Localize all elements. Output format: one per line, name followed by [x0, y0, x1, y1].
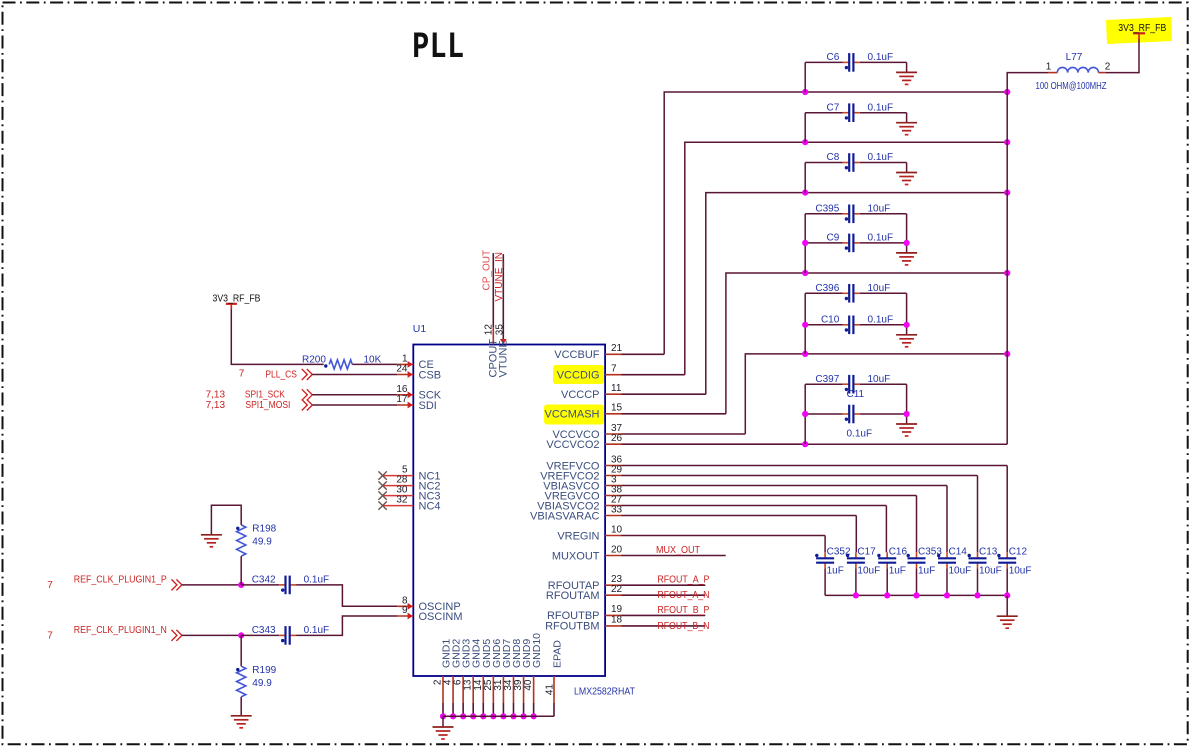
svg-text:0.1uF: 0.1uF [868, 152, 894, 163]
wire VBIASVCO drop to cap [946, 486, 948, 553]
svg-text:REF_CLK_PLUGIN1_P: REF_CLK_PLUGIN1_P [74, 575, 167, 586]
wire VCCDIG riser to bus [685, 142, 1007, 375]
node junction C353 [913, 592, 919, 598]
svg-text:10: 10 [611, 524, 623, 535]
svg-text:1: 1 [1046, 62, 1052, 73]
svg-text:12: 12 [483, 324, 494, 336]
svg-text:10uF: 10uF [868, 283, 891, 294]
ground GND bus [433, 727, 454, 739]
pin 1 CE [397, 363, 413, 365]
pin 34 GND8 [512, 676, 514, 703]
svg-text:OSCINM: OSCINM [419, 611, 463, 623]
svg-text:18: 18 [611, 615, 623, 626]
svg-text:32: 32 [396, 495, 408, 506]
highlight 3V3_RF_FB top right [1106, 17, 1172, 44]
svg-text:2: 2 [1105, 62, 1111, 73]
resistor R198 49.9 [240, 556, 242, 585]
svg-text:24: 24 [396, 364, 408, 375]
svg-text:PLL: PLL [412, 25, 464, 68]
pin 6 GND3 [462, 676, 464, 703]
svg-text:33: 33 [611, 504, 623, 515]
ground C9 [896, 253, 917, 265]
capacitor C17 10uF [855, 552, 857, 557]
capacitor C16 1uF [886, 552, 888, 557]
svg-text:100 OHM@100MHZ: 100 OHM@100MHZ [1036, 81, 1107, 92]
svg-text:CSB: CSB [419, 369, 442, 381]
pin 12 CPOUT [492, 327, 494, 345]
svg-text:C396: C396 [815, 283, 839, 294]
ground R198 [201, 535, 222, 547]
svg-text:VREGIN: VREGIN [557, 530, 599, 542]
wire C397 C11 right join [906, 384, 908, 424]
pin 4 GND2 [452, 676, 454, 703]
highlight VCCMASH [544, 405, 604, 425]
pin 9 OSCINM [397, 615, 413, 617]
svg-text:C16: C16 [889, 547, 908, 558]
wire C395 C9 right join [906, 214, 908, 253]
pin 25 GND6 [492, 676, 494, 703]
capacitor C12 10uF [1006, 552, 1008, 557]
pin 30 NC3 no-connect [383, 495, 414, 497]
svg-text:VBIASVARAC: VBIASVARAC [530, 510, 600, 522]
svg-text:C6: C6 [827, 52, 840, 63]
pin 14 GND5 [482, 676, 484, 703]
svg-text:VCCDIG: VCCDIG [557, 370, 600, 382]
pin 39 GND9 [523, 676, 525, 703]
svg-text:1uF: 1uF [918, 566, 935, 577]
capacitor C8 0.1uF [805, 162, 843, 164]
svg-text:17: 17 [396, 394, 408, 405]
capacitor C9 0.1uF [805, 242, 843, 244]
svg-text:VTUNE: VTUNE [498, 340, 510, 377]
pin 7 VCCDIG [605, 374, 621, 376]
pin 35 VTUNE [502, 254, 504, 344]
wire VREFVCO2 drop to cap [977, 476, 979, 553]
svg-text:RFOUT_A_N: RFOUT_A_N [657, 590, 709, 601]
capacitor C10 0.1uF [805, 324, 843, 326]
capacitor C7 0.1uF [805, 112, 843, 114]
wire C8 left drop to bus [804, 163, 806, 193]
pin 17 SDI [397, 404, 413, 406]
pin 18 RFOUTBM [605, 625, 621, 627]
wire C343 to OSCINM [296, 616, 397, 635]
capacitor C11 0.1uF [805, 413, 843, 415]
svg-text:7: 7 [239, 368, 245, 379]
power symbol 3V3_RF_FB left [226, 303, 237, 305]
capacitor C396 10uF [805, 292, 843, 294]
wire C395 C9 left join [804, 214, 806, 273]
pin 15 VCCMASH [605, 413, 621, 415]
wire VREGIN drop to cap [824, 536, 826, 553]
wire SPI1_SCK to SCK [312, 394, 397, 396]
wire REF_CLK_PLUGIN1_N [182, 634, 241, 636]
wire VCCBUF riser to bus [664, 92, 1007, 354]
svg-text:C395: C395 [815, 203, 839, 214]
ground C6 [896, 72, 917, 84]
wire R200 to CE [352, 363, 397, 365]
svg-text:REF_CLK_PLUGIN1_N: REF_CLK_PLUGIN1_N [74, 625, 167, 636]
svg-text:C13: C13 [979, 547, 998, 558]
wire VBIASVARAC drop to cap [855, 516, 857, 553]
resistor R199 49.9 [240, 635, 242, 666]
wire C8 right to ground [906, 163, 908, 173]
svg-text:10uF: 10uF [857, 566, 880, 577]
svg-text:RFOUT_B_P: RFOUT_B_P [657, 605, 709, 616]
svg-text:SDI: SDI [419, 400, 437, 412]
svg-text:RFOUT_B_N: RFOUT_B_N [657, 621, 709, 632]
svg-text:40: 40 [523, 679, 534, 691]
svg-text:C10: C10 [821, 314, 840, 325]
svg-text:R199: R199 [252, 665, 276, 676]
svg-text:15: 15 [611, 403, 623, 414]
ground 7-cap bus [997, 616, 1018, 628]
node junction C14 [944, 592, 950, 598]
svg-text:0.1uF: 0.1uF [868, 52, 894, 63]
pin 19 RFOUTBP [605, 614, 621, 616]
wire C397 C11 left join [804, 384, 806, 444]
capacitor C395 10uF [805, 213, 843, 215]
pin 24 CSB [397, 374, 413, 376]
ground R199 [231, 716, 252, 728]
capacitor C353 1uF [916, 552, 918, 557]
wire C396 C10 left join [804, 293, 806, 354]
svg-text:0.1uF: 0.1uF [304, 575, 330, 586]
wire GND bus [443, 715, 554, 717]
wire VBIASVCO2 drop to cap [885, 506, 887, 553]
pin 3 VBIASVCO [605, 485, 621, 487]
svg-text:VCCVCO2: VCCVCO2 [546, 439, 599, 451]
node junction C17 [853, 592, 859, 598]
wire VREGVCO drop to cap [916, 496, 918, 553]
pin 38 VREGVCO [605, 495, 621, 497]
svg-text:3V3_RF_FB: 3V3_RF_FB [1118, 23, 1166, 34]
svg-text:7,13: 7,13 [206, 400, 226, 411]
wire VREFVCO drop to cap [1006, 466, 1008, 553]
svg-text:VCCMASH: VCCMASH [544, 409, 599, 421]
svg-text:C9: C9 [827, 233, 840, 244]
svg-text:RFOUTAM: RFOUTAM [546, 590, 600, 602]
wire REF_CLK_PLUGIN1_P [182, 584, 241, 586]
wire C7 right to ground [906, 113, 908, 123]
ground C10 [896, 335, 917, 347]
capacitor C14 10uF [946, 552, 948, 557]
wire C342 to OSCINP [296, 585, 397, 606]
node junction C13 [974, 592, 980, 598]
svg-text:10uF: 10uF [868, 203, 891, 214]
svg-text:R198: R198 [252, 524, 276, 535]
wire PLL_CS to CSB [312, 374, 397, 376]
pin 27 VBIASVCO2 [605, 505, 621, 507]
svg-text:C342: C342 [252, 575, 276, 586]
wire VCCVCO2 bus to rail [805, 443, 1007, 445]
svg-text:C14: C14 [949, 547, 968, 558]
pin 2 GND1 [442, 676, 444, 703]
inductor L77 [1048, 72, 1057, 74]
wire 3V3_RF_FB to R200 [231, 309, 323, 364]
svg-text:10uF: 10uF [1009, 566, 1032, 577]
pin 10 VREGIN [605, 535, 621, 537]
pin 20 MUXOUT [605, 555, 621, 557]
node junction C16 [884, 592, 890, 598]
svg-text:VTUNE_IN: VTUNE_IN [494, 252, 505, 301]
svg-text:9: 9 [402, 605, 408, 616]
svg-text:10uF: 10uF [979, 566, 1002, 577]
resistor R200 10K [329, 360, 352, 369]
wire VCCVCO riser to bus [745, 354, 1007, 434]
ground C11 [896, 424, 917, 436]
svg-text:0.1uF: 0.1uF [868, 314, 894, 325]
svg-text:3V3_RF_FB: 3V3_RF_FB [213, 294, 261, 305]
wire VCCCP riser to bus [706, 193, 1007, 395]
svg-text:L77: L77 [1066, 52, 1083, 63]
power symbol 3V3_RF_FB right [1133, 32, 1145, 34]
svg-text:LMX2582RHAT: LMX2582RHAT [574, 687, 635, 698]
pin 32 NC4 no-connect [383, 505, 414, 507]
pin 16 SCK [397, 394, 413, 396]
wire VCCMASH riser to bus [726, 273, 1007, 414]
svg-text:RFOUTBM: RFOUTBM [545, 621, 599, 633]
capacitor C397 10uF [805, 383, 843, 385]
wire supply rail [1007, 73, 1048, 445]
svg-text:C397: C397 [815, 374, 839, 385]
svg-text:10uF: 10uF [868, 374, 891, 385]
svg-text:10uF: 10uF [949, 566, 972, 577]
svg-text:C17: C17 [857, 547, 876, 558]
pin 5 NC1 no-connect [383, 475, 414, 477]
wire GND1 to ground [442, 716, 444, 727]
capacitor C352 1uF [824, 552, 826, 557]
wire R199 to ground [240, 697, 242, 716]
pin 28 NC2 no-connect [383, 485, 414, 487]
ground C7 [896, 123, 917, 135]
svg-text:EPAD: EPAD [552, 640, 564, 668]
svg-text:0.1uF: 0.1uF [847, 429, 873, 440]
wire C6 left drop to bus [804, 62, 806, 92]
capacitor C343 0.1uF [241, 634, 279, 636]
capacitor C342 0.1uF [241, 584, 279, 586]
pin 26 VCCVCO2 [605, 443, 621, 445]
wire C6 right to ground [906, 62, 908, 72]
svg-text:VCCBUF: VCCBUF [554, 349, 600, 361]
svg-text:41: 41 [545, 684, 556, 696]
svg-text:C11: C11 [847, 389, 865, 400]
svg-text:C343: C343 [252, 625, 276, 636]
svg-text:GND10: GND10 [531, 633, 543, 668]
pin 33 VBIASVARAC [605, 515, 621, 517]
svg-text:21: 21 [611, 343, 623, 354]
svg-text:7: 7 [611, 364, 617, 375]
svg-text:0.1uF: 0.1uF [868, 102, 894, 113]
svg-text:VCCCP: VCCCP [561, 389, 600, 401]
pin 41 EPAD [553, 676, 555, 703]
pin 36 VREFVCO [605, 465, 621, 467]
svg-text:U1: U1 [413, 323, 427, 335]
pin 29 VREFVCO2 [605, 475, 621, 477]
svg-text:MUX_OUT: MUX_OUT [656, 545, 700, 556]
pin 40 GND10 [533, 676, 535, 703]
wire SPI1_MOSI to SDI [312, 404, 397, 406]
svg-text:C8: C8 [827, 152, 840, 163]
svg-text:RFOUT_A_P: RFOUT_A_P [657, 575, 709, 586]
pin 21 VCCBUF [605, 353, 621, 355]
pin 37 VCCVCO [605, 433, 621, 435]
wire L77 to power [1106, 39, 1139, 73]
capacitor C6 0.1uF [805, 61, 843, 63]
svg-text:R200: R200 [302, 355, 326, 366]
svg-text:35: 35 [495, 324, 506, 336]
pin 8 OSCINP [397, 605, 413, 607]
svg-text:0.1uF: 0.1uF [304, 625, 330, 636]
svg-text:MUXOUT: MUXOUT [552, 550, 600, 562]
svg-text:SPI1_MOSI: SPI1_MOSI [245, 400, 290, 411]
svg-text:PLL_CS: PLL_CS [265, 369, 297, 380]
svg-text:11: 11 [611, 383, 622, 394]
svg-text:20: 20 [611, 544, 623, 555]
highlight VCCDIG [553, 365, 604, 384]
svg-text:NC4: NC4 [419, 500, 441, 512]
svg-text:1uF: 1uF [889, 566, 906, 577]
wire C396 C10 right join [906, 293, 908, 335]
svg-text:26: 26 [611, 433, 623, 444]
ground C8 [896, 173, 917, 185]
svg-text:19: 19 [611, 604, 623, 615]
svg-text:CP_OUT: CP_OUT [481, 250, 492, 291]
node junction C12 [1004, 592, 1010, 598]
svg-text:7: 7 [47, 580, 53, 591]
wire 7-cap ground bus [825, 594, 1007, 596]
wire R198 hook to ground [211, 505, 241, 535]
wire bus to ground [1006, 595, 1008, 616]
svg-text:C12: C12 [1009, 547, 1028, 558]
svg-text:0.1uF: 0.1uF [868, 233, 894, 244]
pin 31 GND7 [502, 676, 504, 703]
svg-text:C7: C7 [827, 102, 840, 113]
wire C7 left drop to bus [804, 113, 806, 143]
svg-text:49.9: 49.9 [252, 678, 272, 689]
pin 23 RFOUTAP [605, 584, 621, 586]
svg-text:1uF: 1uF [827, 566, 844, 577]
pin 11 VCCCP [605, 393, 621, 395]
op-amp U1 LMX2582RHAT body [413, 345, 605, 677]
capacitor C13 10uF [977, 552, 979, 557]
svg-text:7: 7 [47, 631, 53, 642]
pin 22 RFOUTAM [605, 594, 621, 596]
svg-text:49.9: 49.9 [252, 537, 272, 548]
pin 13 GND4 [472, 676, 474, 703]
svg-text:22: 22 [611, 584, 623, 595]
